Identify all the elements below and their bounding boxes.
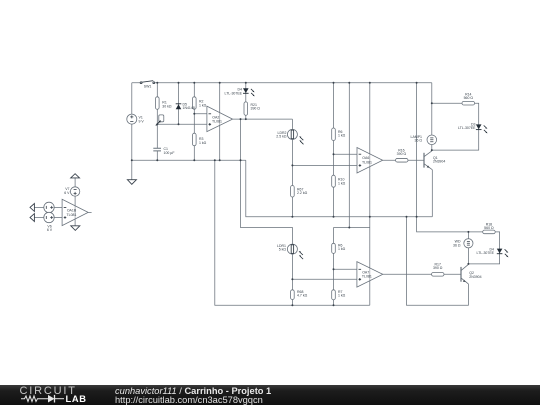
svg-text:390 Ω: 390 Ω	[397, 152, 407, 156]
svg-text:1 kΩ: 1 kΩ	[199, 103, 207, 107]
svg-text:390 Ω: 390 Ω	[251, 107, 261, 111]
svg-text:560 Ω: 560 Ω	[464, 96, 474, 100]
svg-text:100 µF: 100 µF	[164, 151, 175, 155]
svg-text:TL081: TL081	[362, 160, 372, 164]
svg-text:LTL-307EE: LTL-307EE	[225, 91, 243, 95]
svg-text:1N4148: 1N4148	[183, 106, 195, 110]
svg-text:390 Ω: 390 Ω	[433, 266, 443, 270]
svg-text:1 kΩ: 1 kΩ	[338, 294, 346, 298]
svg-text:560 Ω: 560 Ω	[484, 226, 494, 230]
svg-text:6 V: 6 V	[47, 228, 53, 232]
svg-text:4.7 kΩ: 4.7 kΩ	[297, 294, 308, 298]
svg-text:2.5 kΩ: 2.5 kΩ	[276, 135, 287, 139]
svg-text:36 Ω: 36 Ω	[453, 244, 461, 248]
svg-text:SW1: SW1	[144, 85, 152, 89]
svg-text:2N3904: 2N3904	[433, 160, 445, 164]
svg-text:2.2 kΩ: 2.2 kΩ	[297, 191, 308, 195]
svg-text:9 V: 9 V	[139, 119, 145, 123]
svg-text:30 kΩ: 30 kΩ	[162, 104, 172, 108]
svg-text:1 kΩ: 1 kΩ	[338, 134, 346, 138]
svg-text:1 kΩ: 1 kΩ	[338, 247, 346, 251]
svg-text:6 V: 6 V	[64, 191, 70, 195]
svg-text:TL081: TL081	[362, 275, 372, 279]
svg-text:36 Ω: 36 Ω	[415, 139, 423, 143]
svg-text:LTL-307EE: LTL-307EE	[477, 251, 495, 255]
svg-text:2N3904: 2N3904	[469, 275, 481, 279]
svg-text:LTL-307EE: LTL-307EE	[458, 126, 476, 130]
svg-text:1 kΩ: 1 kΩ	[199, 141, 207, 145]
svg-text:1 kΩ: 1 kΩ	[338, 181, 346, 185]
svg-text:TL081: TL081	[67, 213, 77, 217]
svg-text:5 kΩ: 5 kΩ	[279, 248, 287, 252]
svg-text:TL081: TL081	[212, 120, 222, 124]
